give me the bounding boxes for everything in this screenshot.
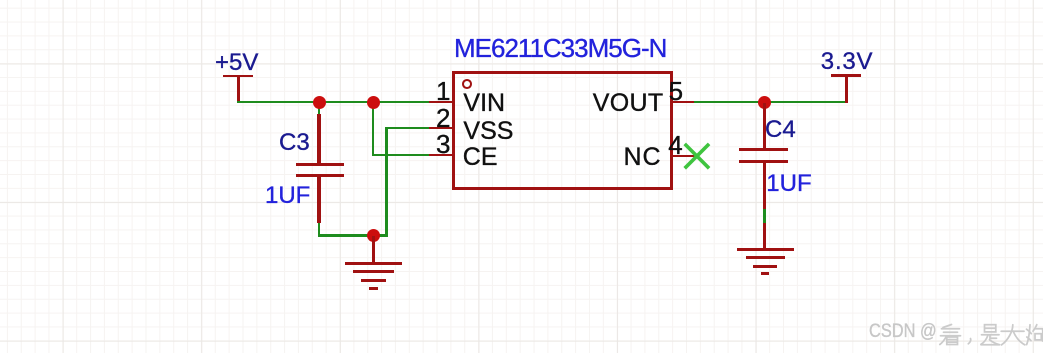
wire VSS vertical down (385, 127, 388, 237)
pin number 3 (420, 131, 451, 157)
ground left bar2 (353, 270, 394, 273)
pin number 2 (420, 105, 451, 131)
wire VOUT horizontal (694, 101, 848, 104)
pin number 1 (420, 78, 451, 104)
ground right bar2 (746, 256, 785, 259)
ground left bar4 (369, 287, 378, 290)
ground left bar3 (361, 279, 386, 282)
wire C3 top vertical (318, 102, 321, 116)
capacitor C3 pin upper (317, 114, 321, 164)
pin number 4 (668, 132, 682, 158)
capacitor C3 plate top (296, 163, 344, 166)
power port +5V label (215, 51, 258, 75)
pin 2 stub (429, 127, 453, 130)
pin label NC (624, 145, 662, 170)
no-connect X on pin 4 (681, 140, 713, 172)
capacitor C4 value 1UF (766, 172, 811, 196)
watermark hanzi drawn as strokes (915, 318, 1043, 350)
wire C4 to ground green segment (763, 209, 766, 223)
pin 1 stub (429, 101, 453, 104)
capacitor C3 pin lower (317, 177, 321, 223)
pin 1 indicator circle (462, 79, 472, 89)
power port 3.3V bar (831, 74, 861, 77)
IC U1 body ME6211C33M5G-N (452, 71, 674, 190)
ground right bar3 (753, 265, 777, 268)
ground left bar1 (345, 262, 402, 265)
junction dot B (373,102) (367, 96, 380, 109)
wire C3 bottom vertical green (318, 221, 321, 236)
capacitor C4 pin lower (763, 163, 767, 209)
power port +5V stub (237, 76, 240, 102)
power port +5V bar (223, 75, 253, 78)
capacitor C3 plate bottom (296, 174, 344, 177)
junction dot A (319,102) (313, 96, 326, 109)
ground right bar1 (737, 248, 794, 251)
capacitor C4 plate bottom (739, 160, 788, 163)
ground right bar4 (761, 272, 769, 275)
capacitor C4 designator (765, 118, 796, 142)
IC title ME6211C33M5G-N (454, 35, 666, 61)
wire main horizontal net +5V to VIN (237, 101, 430, 104)
wire ground horizontal left (318, 234, 389, 237)
wire junction vertical to CE (372, 102, 375, 156)
pin 5 stub (672, 101, 695, 104)
capacitor C3 designator (279, 131, 310, 155)
pin label CE (463, 145, 498, 170)
pin 3 stub (429, 154, 453, 157)
pin label VOUT (593, 91, 664, 116)
ground right pin (763, 223, 766, 250)
capacitor C3 value 1UF (265, 184, 310, 208)
ground left stub (372, 236, 375, 263)
junction dot D (765,102) (758, 96, 771, 109)
junction dot C (373,236) (367, 229, 380, 242)
power port 3.3V label (821, 50, 874, 74)
power port 3.3V stub (845, 75, 848, 103)
pin label VSS (463, 119, 513, 144)
capacitor C4 pin upper (763, 103, 767, 148)
wire horizontal to VSS pin2 (385, 127, 430, 130)
wire horizontal to CE pin3 (372, 154, 430, 157)
pin number 5 (669, 78, 683, 104)
capacitor C4 plate top (739, 148, 788, 151)
pin label VIN (463, 91, 505, 116)
pin 4 stub (672, 155, 695, 158)
watermark CSDN (869, 322, 949, 342)
